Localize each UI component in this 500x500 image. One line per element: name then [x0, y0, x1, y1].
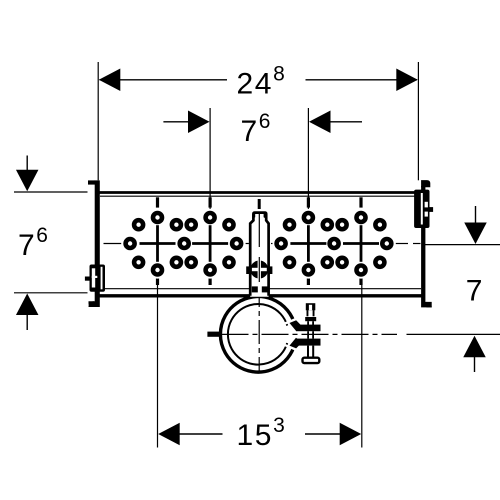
dim 7 right top line [424, 244, 500, 246]
left rail clip crossbar [92, 276, 98, 278]
dim 7.6 top left extension line [209, 108, 211, 218]
pipe clamp horizontal centerline [222, 333, 398, 335]
plate top edge (outer, thick) [99, 191, 422, 194]
dim 7 right down-arrow line [475, 206, 477, 223]
strap side tabs [246, 266, 249, 274]
pipe clamp vertical centerline [258, 283, 260, 372]
pipe clamp upper band end wedge [289, 319, 302, 331]
dim 7 right up-arrow line [474, 357, 476, 373]
left rail clip slot 1 [92, 268, 95, 287]
dim 7 right down arrowhead [464, 223, 487, 245]
left rail clip nub [85, 277, 90, 281]
dim 7.6 left up arrowhead [16, 294, 39, 316]
dim 7.6 top right arrow tail [329, 121, 362, 123]
plate top edge (inner, thin) [100, 195, 421, 197]
strap bottom feet [252, 286, 258, 292]
right rail clip slot 2 [425, 202, 428, 208]
right rail clip nub [430, 207, 434, 212]
pipe clamp lower band end wedge [289, 338, 302, 350]
right end bracket bar [421, 186, 432, 307]
pipe clamp inner band [228, 304, 287, 365]
strap top ears [252, 212, 255, 219]
dim 7.6 top left arrowhead [188, 111, 210, 134]
left bracket top flange [88, 180, 95, 184]
left bracket foot round [89, 301, 95, 307]
dim 24.8 right extension line [417, 62, 419, 180]
dim 7.6 left bottom line [14, 292, 88, 294]
pipe clamp lower joint slit [283, 344, 297, 350]
right rail clip body [414, 190, 429, 228]
dim 7.6 left down arrowhead [16, 170, 39, 192]
plate holes (washer rings) [126, 213, 392, 275]
dim 7.6 top right extension line [307, 108, 309, 218]
strap fixing screw [250, 257, 268, 282]
dim 7.6 left up-arrow line [26, 314, 28, 330]
dim 15.3 left arrow tail [180, 433, 223, 435]
left rail clip body [90, 265, 106, 292]
plate horizontal centerline dashes [104, 243, 421, 245]
pipe clamp outer band [220, 297, 295, 373]
pipe clamp upper joint slit [283, 319, 297, 325]
dim 15.3 right arrowhead [340, 423, 362, 446]
right rail clip slot 3 [425, 212, 428, 217]
dim 7.6 left down-arrow line [26, 156, 28, 172]
plate bottom edge (inner, thin) [100, 288, 421, 290]
hole-pattern centre crosses [140, 225, 380, 262]
left end bracket bar [89, 180, 100, 307]
left rail clip slot 2 [101, 267, 103, 290]
clamp closing bolt [296, 303, 321, 363]
center column dash [258, 199, 261, 209]
white clearances around holes [122, 209, 396, 279]
strap vertical centerline [258, 214, 260, 248]
dim 7.6 top right arrowhead [309, 111, 331, 134]
dim 7 right up arrowhead [463, 336, 486, 358]
right rail clip slot 1 [421, 193, 423, 225]
dim 24.8 right arrowhead [396, 69, 418, 92]
hole-pattern vertical centerline dashes [158, 197, 362, 285]
dim 24.8 line right segment [306, 79, 418, 81]
dim 24.8 line left segment [100, 79, 228, 81]
dim 24.8 left arrowhead [99, 69, 121, 92]
pipe clamp left weld tab [207, 332, 219, 337]
right bracket top hook [421, 180, 430, 187]
svg-text:7: 7 [466, 275, 483, 308]
dim 24.8 left extension line [97, 62, 99, 180]
dim 15.3 right arrow tail [305, 433, 341, 435]
dim 15.3 left arrowhead [158, 423, 180, 446]
right bracket foot round [426, 302, 431, 308]
dim 15.3 right extension line [361, 270, 363, 448]
dim 7.6 top left arrow tail [163, 121, 190, 123]
plate bottom edge (outer, thick) [99, 294, 422, 297]
dim 15.3 left extension line [157, 270, 159, 448]
central clamp strap [250, 213, 268, 297]
dim 7.6 left top line [14, 191, 88, 193]
